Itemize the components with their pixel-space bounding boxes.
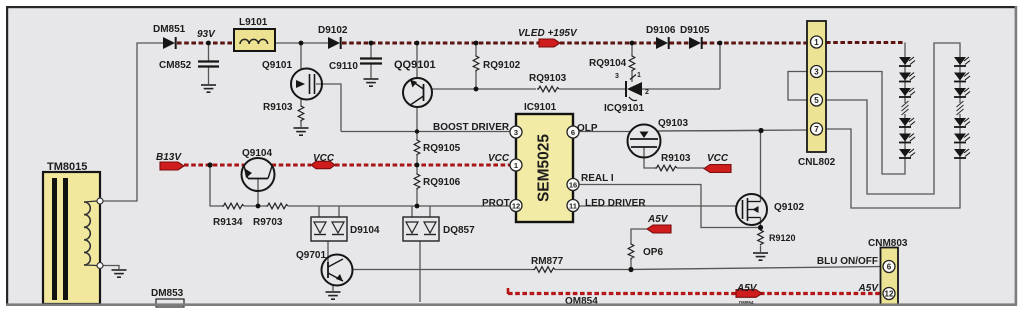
svg-text:1: 1: [814, 38, 819, 47]
svg-text:ICQ9101: ICQ9101: [604, 103, 644, 114]
svg-text:RQ9105: RQ9105: [423, 143, 461, 154]
svg-text:R9103: R9103: [263, 102, 293, 113]
svg-text:Q9103: Q9103: [658, 118, 688, 129]
svg-text:A5V: A5V: [736, 283, 758, 294]
svg-text:CNM803: CNM803: [868, 238, 908, 249]
svg-text:R9120: R9120: [769, 233, 796, 243]
svg-text:R9103: R9103: [661, 153, 691, 164]
svg-text:SEM5025: SEM5025: [536, 134, 553, 202]
svg-text:1: 1: [637, 72, 641, 79]
svg-text:6: 6: [887, 263, 892, 272]
svg-text:RQ9103: RQ9103: [529, 73, 567, 84]
svg-text:6: 6: [571, 128, 575, 137]
svg-text:Q9104: Q9104: [242, 148, 272, 159]
svg-text:L9101: L9101: [239, 17, 268, 28]
svg-text:BOOST DRIVER: BOOST DRIVER: [433, 122, 510, 133]
svg-text:REAL I: REAL I: [581, 173, 614, 184]
svg-text:12: 12: [512, 201, 520, 210]
svg-text:C9110: C9110: [329, 61, 358, 72]
svg-text:PROT: PROT: [482, 198, 510, 209]
svg-text:93V: 93V: [197, 29, 216, 40]
svg-text:16: 16: [569, 180, 577, 189]
svg-text:3: 3: [514, 128, 518, 137]
svg-text:CM852: CM852: [159, 60, 192, 71]
svg-text:VCC: VCC: [488, 153, 510, 164]
svg-text:A5V: A5V: [858, 283, 880, 294]
svg-text:OP6: OP6: [643, 247, 663, 258]
svg-text:LED DRIVER: LED DRIVER: [585, 198, 646, 209]
svg-text:BLU ON/OFF: BLU ON/OFF: [817, 256, 878, 267]
svg-text:D9102: D9102: [318, 25, 348, 36]
svg-text:RQ9102: RQ9102: [483, 60, 521, 71]
svg-text:DM851: DM851: [153, 24, 186, 35]
svg-text:7: 7: [814, 125, 819, 134]
svg-text:A5V: A5V: [647, 214, 669, 225]
svg-text:RQ9106: RQ9106: [423, 177, 461, 188]
svg-text:D9104: D9104: [350, 225, 380, 236]
svg-text:Q9701: Q9701: [296, 250, 326, 261]
svg-text:IC9101: IC9101: [524, 102, 557, 113]
svg-text:VCC: VCC: [313, 153, 335, 164]
svg-text:VCC: VCC: [707, 153, 729, 164]
svg-text:D9105: D9105: [680, 25, 710, 36]
svg-text:3: 3: [814, 68, 819, 77]
svg-text:DM853: DM853: [151, 288, 184, 299]
svg-text:Q9101: Q9101: [262, 60, 292, 71]
svg-text:11: 11: [569, 201, 577, 210]
svg-text:OLP: OLP: [577, 123, 598, 134]
svg-text:QQ9101: QQ9101: [394, 59, 436, 71]
svg-text:D9106: D9106: [646, 25, 676, 36]
svg-text:VLED +195V: VLED +195V: [518, 28, 578, 39]
svg-text:3: 3: [615, 73, 619, 80]
svg-text:TM8015: TM8015: [47, 161, 87, 173]
svg-text:RM877: RM877: [531, 256, 564, 267]
svg-text:5: 5: [814, 96, 819, 105]
svg-text:RQ9104: RQ9104: [589, 58, 627, 69]
svg-text:DQ857: DQ857: [443, 225, 475, 236]
svg-text:R9703: R9703: [253, 217, 283, 228]
svg-text:2: 2: [645, 89, 649, 96]
svg-text:CNL802: CNL802: [798, 157, 836, 168]
svg-text:1: 1: [514, 161, 518, 170]
svg-text:R9134: R9134: [213, 217, 243, 228]
svg-text:Q9102: Q9102: [774, 202, 804, 213]
svg-text:12: 12: [885, 290, 894, 299]
svg-text:B13V: B13V: [156, 152, 182, 163]
